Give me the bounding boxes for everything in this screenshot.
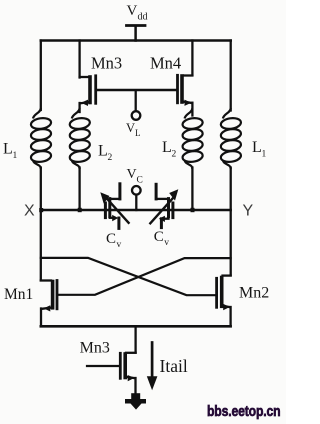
svg-text:2: 2 [172, 150, 177, 160]
svg-text:V: V [126, 121, 135, 135]
svg-text:L: L [3, 141, 13, 158]
svg-text:L: L [98, 143, 108, 160]
svg-text:X: X [24, 203, 35, 220]
svg-text:C: C [137, 176, 143, 186]
svg-text:Mn3: Mn3 [91, 54, 122, 73]
svg-text:C: C [106, 231, 116, 247]
svg-text:V: V [127, 3, 138, 19]
svg-text:2: 2 [108, 153, 113, 163]
svg-text:dd: dd [138, 12, 148, 23]
svg-text:Mn3: Mn3 [80, 340, 110, 357]
svg-text:v: v [117, 240, 122, 250]
svg-text:Mn4: Mn4 [150, 54, 181, 73]
svg-text:1: 1 [262, 150, 267, 160]
svg-text:Y: Y [243, 203, 254, 220]
svg-text:C: C [154, 229, 164, 245]
svg-text:L: L [252, 139, 262, 156]
svg-text:V: V [127, 167, 137, 182]
svg-text:v: v [164, 238, 169, 248]
svg-text:1: 1 [13, 151, 18, 161]
svg-text:Mn1: Mn1 [4, 286, 33, 303]
svg-text:Itail: Itail [160, 356, 188, 376]
svg-text:Mn2: Mn2 [239, 285, 269, 302]
svg-text:L: L [135, 128, 141, 138]
svg-text:L: L [162, 139, 172, 156]
